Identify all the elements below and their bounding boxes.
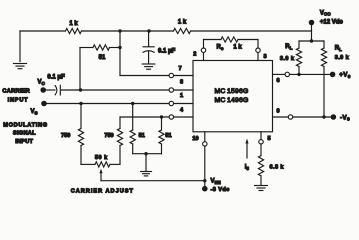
- svg-text:10: 10: [192, 136, 198, 142]
- svg-text:RL: RL: [285, 44, 292, 50]
- svg-text:MC 1496G: MC 1496G: [215, 97, 249, 104]
- svg-text:750: 750: [104, 133, 113, 139]
- svg-text:0.1 μF: 0.1 μF: [158, 49, 176, 55]
- svg-text:1 k: 1 k: [69, 21, 78, 27]
- svg-text:1 k: 1 k: [233, 45, 242, 51]
- svg-text:4: 4: [180, 108, 184, 114]
- svg-text:3.9 k: 3.9 k: [280, 56, 295, 62]
- svg-text:+12 Vdc: +12 Vdc: [320, 19, 344, 25]
- svg-text:51: 51: [139, 133, 145, 139]
- svg-text:-8 Vdc: -8 Vdc: [211, 187, 230, 193]
- svg-text:1: 1: [180, 93, 183, 99]
- svg-text:MODULATING: MODULATING: [3, 122, 48, 128]
- svg-text:-V0: -V0: [340, 114, 350, 122]
- svg-text:6.8 k: 6.8 k: [270, 164, 285, 170]
- svg-text:750: 750: [61, 133, 70, 139]
- svg-text:SIGNAL: SIGNAL: [13, 131, 36, 137]
- svg-text:7: 7: [179, 66, 182, 72]
- svg-text:MC 1596G: MC 1596G: [215, 88, 249, 95]
- svg-text:3: 3: [263, 54, 266, 60]
- svg-text:5: 5: [268, 136, 271, 142]
- svg-text:3.9 k: 3.9 k: [335, 55, 350, 61]
- svg-text:6: 6: [277, 78, 280, 84]
- svg-text:Re: Re: [217, 45, 224, 51]
- svg-text:9: 9: [277, 108, 280, 114]
- svg-text:VCC: VCC: [320, 10, 331, 16]
- svg-text:0.1 μF: 0.1 μF: [47, 74, 65, 80]
- svg-text:51: 51: [165, 133, 171, 139]
- svg-text:VC: VC: [38, 80, 46, 86]
- svg-text:CARRIER ADJUST: CARRIER ADJUST: [71, 188, 134, 194]
- svg-text:8: 8: [180, 80, 183, 86]
- svg-text:I5: I5: [245, 164, 250, 170]
- svg-text:INPUT: INPUT: [8, 97, 29, 103]
- svg-text:VS: VS: [31, 109, 38, 115]
- svg-text:50 k: 50 k: [95, 155, 108, 161]
- svg-text:RL: RL: [335, 46, 342, 52]
- svg-text:1 k: 1 k: [178, 20, 187, 26]
- svg-text:VEE: VEE: [211, 178, 221, 184]
- svg-text:INPUT: INPUT: [15, 139, 33, 145]
- svg-text:+V0: +V0: [339, 71, 351, 79]
- svg-text:CARRIER: CARRIER: [2, 89, 30, 95]
- svg-text:51: 51: [99, 55, 106, 61]
- svg-text:2: 2: [193, 52, 196, 58]
